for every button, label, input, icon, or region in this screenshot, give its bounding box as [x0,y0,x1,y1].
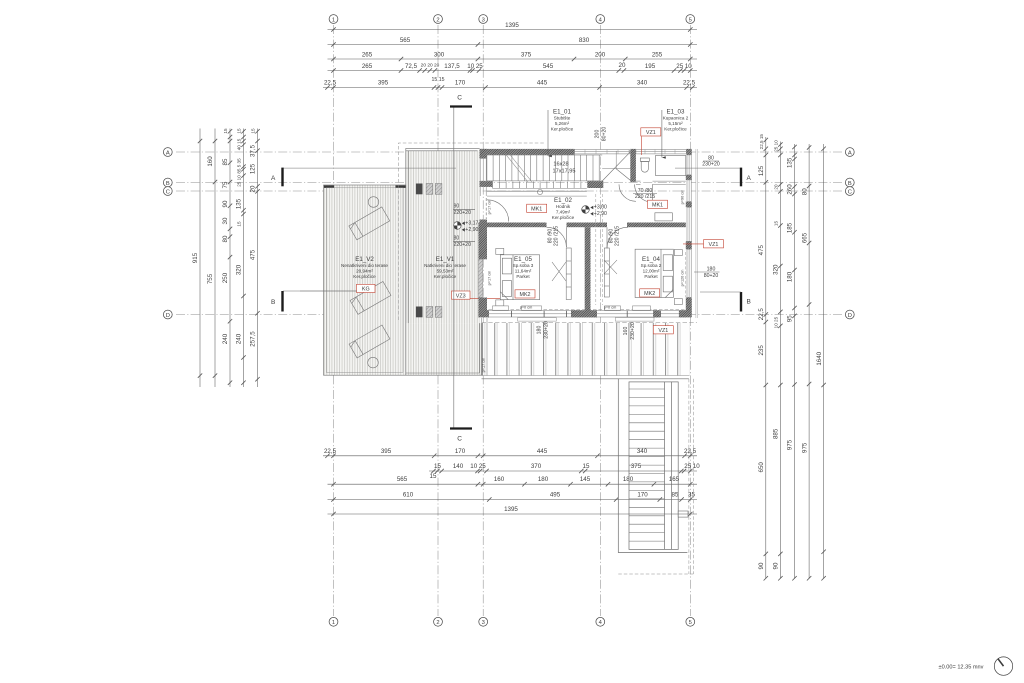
stair void cross [602,151,631,181]
svg-text:260: 260 [787,184,794,195]
svg-text:5,26m²: 5,26m² [555,121,570,126]
svg-text:340: 340 [637,80,648,87]
svg-text:Parket: Parket [644,274,658,279]
svg-text:22,5: 22,5 [758,308,765,321]
terrace corner beams [324,185,334,188]
svg-text:16x28: 16x28 [553,162,568,168]
underline 80/230+20 NE [703,160,719,162]
svg-text:80: 80 [454,236,460,242]
terrace decking E1_V2 [324,185,406,375]
dimension ticks top [331,27,335,31]
svg-text:15: 15 [430,473,437,480]
TERRACE [300,143,691,375]
west wall pier5 [478,298,487,318]
terrace V1 border [406,148,480,323]
svg-text:125: 125 [250,163,257,174]
south wall SE corner [679,310,692,317]
grid bubbles top 1-5 [329,15,338,24]
toilet [640,158,649,172]
south window sills [493,306,509,310]
svg-text:125: 125 [758,165,765,176]
svg-text:200: 200 [595,130,601,139]
lounger 2 [350,281,391,314]
svg-text:A: A [747,175,752,182]
label MK2 E1_04 [640,289,660,297]
svg-text:11,64m²: 11,64m² [515,269,532,274]
svg-text:257,5: 257,5 [250,331,257,347]
svg-text:35: 35 [688,492,695,499]
terrace door arc [486,198,509,222]
north window band bath [636,150,687,154]
grid line 3 [482,25,484,616]
level marker hall [582,205,607,217]
nightstand E1_04b [674,299,682,305]
svg-text:KG: KG [362,287,370,293]
grid line 2 [437,25,439,616]
svg-text:240: 240 [236,333,243,344]
svg-text:195: 195 [645,63,656,70]
underline 70/80 [633,192,657,194]
svg-text:80: 80 [222,235,229,242]
bath partition [636,181,686,184]
wardrobe E1_05 [552,248,571,300]
svg-text:320: 320 [236,264,243,275]
svg-text:VZ1: VZ1 [646,130,656,136]
svg-text:220+20: 220+20 [454,242,472,248]
svg-text:375: 375 [631,463,642,470]
svg-text:90: 90 [773,562,780,569]
grid line 5 [689,25,691,616]
svg-text:370: 370 [531,463,542,470]
east wall pier D [686,298,692,318]
svg-text:160: 160 [207,156,214,167]
svg-text:80+20: 80+20 [704,273,719,279]
svg-text:p=0 cm: p=0 cm [604,305,617,309]
dimension line left [243,129,245,388]
svg-text:265: 265 [362,52,373,59]
svg-text:300: 300 [434,52,445,59]
dimension line left [229,129,231,388]
dimension line [328,70,698,72]
pocket door dashed [596,194,603,305]
svg-text:MK2: MK2 [519,292,530,298]
svg-text:20: 20 [619,62,626,69]
svg-text:395: 395 [378,80,389,87]
svg-text:230+20: 230+20 [544,321,550,339]
terrace V2 border [324,185,406,375]
svg-text:E1_01: E1_01 [553,109,571,116]
hall door arc left [619,184,636,201]
grid bubbles right A-D [845,148,854,157]
external stair box [629,382,678,550]
svg-text:265: 265 [362,63,373,70]
svg-text:72,5: 72,5 [405,63,418,70]
svg-text:Kupaonica 2: Kupaonica 2 [663,116,689,121]
south window mullions [511,311,513,317]
svg-text:C: C [457,436,462,443]
bedroom wall (hall/bedrooms) [487,223,547,228]
svg-text:C: C [166,189,170,195]
svg-text:975: 975 [787,439,794,450]
svg-text:220 /215: 220 /215 [554,226,560,246]
dimension line [328,29,698,31]
section B left [271,291,357,312]
west wall top pier [480,149,488,159]
dimension line [323,87,697,89]
svg-text:135: 135 [787,157,794,168]
dimension line bottom [328,483,698,485]
svg-text:170: 170 [455,80,466,87]
svg-text:p=90 cm: p=90 cm [681,190,685,205]
north window mullions [584,150,586,154]
svg-text:85: 85 [222,158,229,165]
svg-text:40 15: 40 15 [237,138,242,150]
dimension line bottom [323,455,697,457]
svg-text:10 25: 10 25 [467,63,483,70]
svg-text:90: 90 [758,562,765,569]
section B right [700,292,751,312]
svg-text:5: 5 [689,17,692,23]
NE corner pier [686,149,691,155]
north symbol [994,657,1012,675]
stair flight lower [492,182,494,189]
svg-text:650: 650 [758,462,765,473]
svg-text:610: 610 [403,492,414,499]
wall pier stair/bath [630,149,636,182]
roof overhang dashed line [398,143,691,320]
lounger 1 [349,207,390,240]
dimension line bottom [328,513,698,515]
lower terrace outline [618,379,687,553]
svg-text:+3,17: +3,17 [465,221,478,227]
svg-text:E1_03: E1_03 [667,109,685,116]
terrace strip border [406,323,482,375]
shower [656,156,686,176]
north window band [575,150,630,154]
svg-text:75: 75 [222,181,229,188]
svg-text:Ker.pločice: Ker.pločice [353,274,376,279]
section C bottom [450,429,472,443]
lounger 3 [349,325,390,358]
west wall pier4 (bedroom) [478,223,487,260]
svg-text:885: 885 [773,428,780,439]
svg-text:160: 160 [623,327,629,336]
svg-text:830: 830 [579,37,590,44]
svg-text:VZ1: VZ1 [658,328,668,334]
svg-text:200: 200 [595,52,606,59]
svg-text:Ker.pločice: Ker.pločice [664,127,687,132]
svg-text:E1_V1: E1_V1 [436,256,455,263]
svg-text:3: 3 [482,17,485,23]
svg-text:180: 180 [707,267,716,273]
svg-text:15: 15 [583,463,590,470]
BOTTOMDIMS [323,448,700,516]
svg-text:+2,90: +2,90 [465,227,478,233]
svg-text:p=17 cm: p=17 cm [487,271,491,286]
north wall [480,149,575,155]
svg-text:15: 15 [774,221,779,227]
terrace column 5 [426,307,433,318]
svg-text:E1_04: E1_04 [642,256,660,263]
label VZ1 east [683,243,704,245]
svg-text:170: 170 [455,448,466,455]
svg-text:15: 15 [237,221,242,227]
east wall window2 [687,180,691,202]
svg-text:1640: 1640 [816,351,823,365]
label MK1 hall [527,204,547,212]
svg-text:445: 445 [537,80,548,87]
svg-text:20: 20 [774,184,779,190]
external stair treads [629,389,665,541]
east wall pier B [686,202,692,208]
svg-text:340: 340 [637,448,648,455]
svg-text:180: 180 [537,326,543,335]
central wall between bedrooms [585,227,591,310]
table circle 2 [368,357,379,368]
svg-text:25 10: 25 10 [237,175,242,187]
grid line 4 [599,25,601,616]
svg-text:A: A [848,150,852,156]
nightstand E1_05a [496,248,504,254]
bathroom door arc [635,184,653,202]
svg-text:137,5: 137,5 [444,63,460,70]
TOPDIMS [323,22,697,90]
svg-text:p=17 cm: p=17 cm [487,200,491,215]
nightstand E1_05b [496,300,504,306]
svg-text:565: 565 [400,37,411,44]
svg-text:250: 250 [222,272,229,283]
dimension line bottom [328,499,698,501]
dimension line right [823,144,825,578]
svg-text:Hodnik: Hodnik [556,204,571,209]
west wall window1 [480,158,486,181]
svg-text:665: 665 [801,232,808,243]
svg-text:59,53m²: 59,53m² [437,269,454,274]
east wall window3 [687,207,691,241]
svg-text:MK2: MK2 [644,291,655,297]
svg-text:3: 3 [482,620,485,626]
door E1_05 arc [547,227,567,247]
svg-text:395: 395 [381,448,392,455]
RIGHTDIMS [758,134,826,581]
terrace column 2 [426,184,433,195]
dimension line right [779,142,781,579]
left chain top ticks [228,129,260,139]
leader E1_01 [547,110,549,156]
svg-text:475: 475 [250,249,257,260]
svg-text:320: 320 [773,264,780,275]
svg-text:180: 180 [787,271,794,282]
grid line C [176,190,842,192]
svg-text:±0.00= 12.35 mnv: ±0.00= 12.35 mnv [939,665,984,671]
svg-text:15: 15 [434,463,441,470]
svg-text:180: 180 [538,476,549,483]
svg-text:20,94m²: 20,94m² [356,269,373,274]
svg-text:VZ3: VZ3 [456,293,466,299]
svg-text:22,5 15: 22,5 15 [759,134,764,150]
svg-text:25 10: 25 10 [684,463,700,470]
ANNOT [481,109,723,373]
svg-text:Natkriveni dio terase: Natkriveni dio terase [424,263,466,268]
svg-text:475: 475 [758,244,765,255]
stair break line [505,154,528,183]
svg-text:E1_V2: E1_V2 [355,256,374,263]
svg-text:15: 15 [223,128,228,134]
label VZ1 south [653,326,673,334]
leader E1_03 [661,110,663,158]
grid line D [176,314,842,316]
svg-text:B: B [747,299,751,306]
label KG [357,284,376,292]
svg-text:5,15m²: 5,15m² [668,121,683,126]
svg-text:D: D [166,313,170,319]
svg-text:2: 2 [436,620,439,626]
svg-text:7,49m²: 7,49m² [556,210,571,215]
svg-text:1395: 1395 [505,22,519,29]
terrace decking south strip [406,323,482,375]
svg-text:30: 30 [222,217,229,224]
svg-text:240: 240 [222,333,229,344]
grid bubbles left A-D [163,148,172,157]
bed E1_05 [500,255,539,300]
svg-text:Parket: Parket [516,274,530,279]
grid line 1 [333,25,335,616]
dimension ticks bottom [325,454,329,458]
underline 180/80+20 [694,271,720,273]
svg-text:B: B [166,181,170,187]
terrace column 3 [435,184,442,195]
CORNER [939,657,1013,675]
west wall pier2 [480,181,493,187]
svg-text:10 25: 10 25 [774,316,779,328]
door E1_04 arc [607,227,628,248]
east wall pier top [686,154,691,156]
dimension line bottom [429,470,697,472]
svg-text:p=120 cm: p=120 cm [681,270,685,287]
section A right [675,168,752,187]
svg-text:Stubište: Stubište [554,116,571,121]
svg-text:VZ1: VZ1 [709,242,719,248]
svg-text:Nenatkriveni dio terase: Nenatkriveni dio terase [341,263,388,268]
nightstand E1_04a [674,250,682,256]
svg-text:495: 495 [550,492,561,499]
west wall extension lines [481,318,483,376]
svg-text:MK1: MK1 [531,207,542,213]
svg-text:20 20 20: 20 20 20 [421,63,440,69]
dimension line left [199,129,201,388]
svg-text:25 10: 25 10 [774,140,779,152]
south wall pier right1 [653,310,660,317]
svg-text:15: 15 [251,128,256,134]
dimension line right [808,144,810,578]
balcony bottom edge [482,378,689,380]
label VZ1 top [641,128,661,136]
grid bubbles bottom 1-5 [329,617,338,626]
svg-text:p=17 cm: p=17 cm [481,358,485,373]
section A left [271,168,456,187]
svg-text:255: 255 [652,52,663,59]
svg-text:20: 20 [250,185,257,192]
grid line A [176,151,842,153]
svg-text:B: B [271,299,275,306]
svg-text:D: D [848,313,852,319]
svg-text:2: 2 [436,17,439,23]
svg-text:C: C [457,95,462,102]
svg-text:12,00m²: 12,00m² [643,269,660,274]
svg-text:170: 170 [637,492,648,499]
svg-text:C: C [848,189,852,195]
svg-text:Sp.soba 3: Sp.soba 3 [513,263,534,268]
svg-text:22,5: 22,5 [684,448,697,455]
svg-text:445: 445 [537,448,548,455]
balcony dashed top [482,322,698,324]
east wall pier C [686,241,692,249]
south wall band [487,311,686,317]
terrace column 4 [416,307,423,318]
svg-text:230+20: 230+20 [702,162,720,168]
svg-text:22,5: 22,5 [324,448,337,455]
east roof overhang lines [695,149,697,318]
svg-text:220+20: 220+20 [454,210,472,216]
section C line [453,108,455,428]
svg-text:565: 565 [397,476,408,483]
svg-text:160: 160 [494,476,505,483]
grid line B [176,182,842,184]
svg-text:915: 915 [192,252,199,263]
svg-text:37,5: 37,5 [250,144,257,157]
LEFTDIMS [192,128,260,387]
svg-text:B: B [848,181,852,187]
BUILDING [478,149,697,318]
svg-text:135: 135 [236,198,243,209]
svg-text:1395: 1395 [504,506,518,513]
svg-text:E1_02: E1_02 [554,197,572,204]
svg-text:10 25: 10 25 [470,463,486,470]
dimension line right [794,144,796,578]
label MK2 E1_05 [515,290,535,298]
svg-text:25 10: 25 10 [676,63,692,70]
svg-text:90: 90 [222,200,229,207]
svg-text:975: 975 [801,442,808,453]
svg-text:MK1: MK1 [652,203,663,209]
svg-text:A: A [271,175,276,182]
terrace decking E1_V1 [406,151,480,324]
east interior dashed [685,252,687,297]
svg-text:Sp.soba 2: Sp.soba 2 [641,263,662,268]
dimension ticks left [198,139,202,143]
svg-text:5: 5 [689,620,692,626]
east wall window1 [687,155,691,175]
svg-text:1: 1 [332,17,335,23]
svg-text:140: 140 [453,463,464,470]
label VZ3 [452,291,501,299]
terrace column 6 [435,307,442,318]
svg-text:220 /215: 220 /215 [615,226,621,246]
dimension line left [257,129,259,388]
dimension line [328,44,698,46]
svg-text:755: 755 [207,273,214,284]
svg-text:80: 80 [801,188,808,195]
svg-text:E1_05: E1_05 [514,256,532,263]
west wall window2 hatched [478,259,482,297]
dimension line right [765,137,767,578]
svg-text:95: 95 [787,315,794,322]
south wall SW corner [478,310,489,317]
svg-text:A: A [166,150,170,156]
stair flight upper [486,155,488,181]
leader to KG [300,290,357,292]
svg-text:p=0 cm: p=0 cm [520,305,533,309]
